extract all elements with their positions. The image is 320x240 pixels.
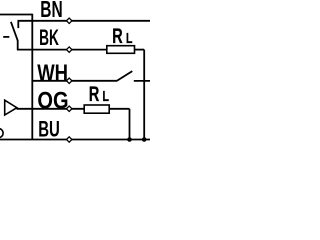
resistor RL load 2 body xyxy=(84,105,109,113)
wire vertical from RL1 down to BU rail xyxy=(143,50,145,140)
svg-text:BU: BU xyxy=(38,117,60,142)
svg-text:BK: BK xyxy=(39,25,59,50)
connector pin diamond OG xyxy=(67,106,72,111)
connector pin diamond BN xyxy=(67,18,72,23)
wire BK resistor to corner xyxy=(134,49,144,51)
switch S1 bottom stub xyxy=(17,40,19,50)
svg-text:WH: WH xyxy=(37,60,68,86)
wire BK horizontal xyxy=(17,49,107,51)
svg-text:OG: OG xyxy=(37,87,68,114)
wire WH horizontal left xyxy=(32,80,117,82)
wire BN horizontal xyxy=(18,20,151,22)
wire WH horizontal right xyxy=(134,80,150,82)
switch S1 actuator dash xyxy=(3,36,9,38)
indicator LED circle cropped at left edge xyxy=(0,129,3,138)
op-amp U1 triangle xyxy=(5,100,17,115)
switch S2 blade on WH line xyxy=(117,71,133,81)
connector pin diamond WH xyxy=(67,78,72,83)
svg-text:R: R xyxy=(112,25,123,48)
svg-text:L: L xyxy=(102,88,109,105)
connector pin diamond BK xyxy=(67,47,72,52)
connector pin diamond BU xyxy=(67,137,72,142)
svg-text:BN: BN xyxy=(40,0,62,22)
sensor box top edge xyxy=(0,14,32,16)
svg-text:L: L xyxy=(126,30,133,47)
junction dot on BU rail at RL1 vertical xyxy=(142,137,147,142)
switch S1 blade xyxy=(11,22,18,41)
switch S1 top stub xyxy=(17,21,19,28)
svg-text:R: R xyxy=(89,83,100,106)
sensor box right edge xyxy=(31,14,33,140)
wire OG horizontal xyxy=(17,108,85,110)
wire BU rail / box bottom edge xyxy=(0,139,150,141)
junction dot on BU rail at RL2 vertical xyxy=(127,137,132,142)
wire vertical from RL2 down to BU rail xyxy=(129,109,131,140)
resistor RL load 1 body xyxy=(107,46,135,54)
wire OG resistor to corner xyxy=(109,108,130,110)
